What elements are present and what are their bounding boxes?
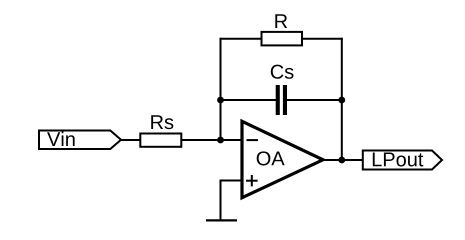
resistor Rs — [140, 134, 181, 147]
wire non-inverting input — [221, 181, 243, 221]
wire right feedback riser — [341, 38, 343, 160]
op-amp OA — [242, 121, 323, 197]
label Cs — [271, 65, 294, 79]
label LPout — [373, 153, 423, 167]
wire middle branch left of Cs — [221, 99, 279, 101]
port flag Vin — [39, 131, 121, 150]
label Vin — [47, 132, 75, 146]
port flag LPout — [363, 151, 442, 170]
ground — [206, 219, 237, 221]
wire Vin to Rs — [118, 139, 141, 141]
wire top branch through R — [220, 38, 343, 40]
label R — [275, 14, 287, 28]
junction node (left R/Cs tap) — [217, 97, 224, 104]
wire middle branch right of Cs — [285, 99, 342, 101]
capacitor Cs — [276, 85, 287, 115]
pin label inverting input — [247, 139, 259, 141]
pin label non-inverting input — [246, 175, 258, 186]
wire left feedback riser — [220, 38, 222, 140]
junction node output — [338, 157, 345, 164]
junction node (right R/Cs tap) — [338, 97, 345, 104]
resistor R — [262, 32, 303, 46]
wire output to LPout — [321, 159, 364, 161]
junction node A (Rs / feedback) — [217, 137, 224, 144]
label OA — [257, 151, 285, 165]
wire Rs to inverting input node A — [180, 139, 242, 141]
label Rs — [151, 115, 173, 129]
